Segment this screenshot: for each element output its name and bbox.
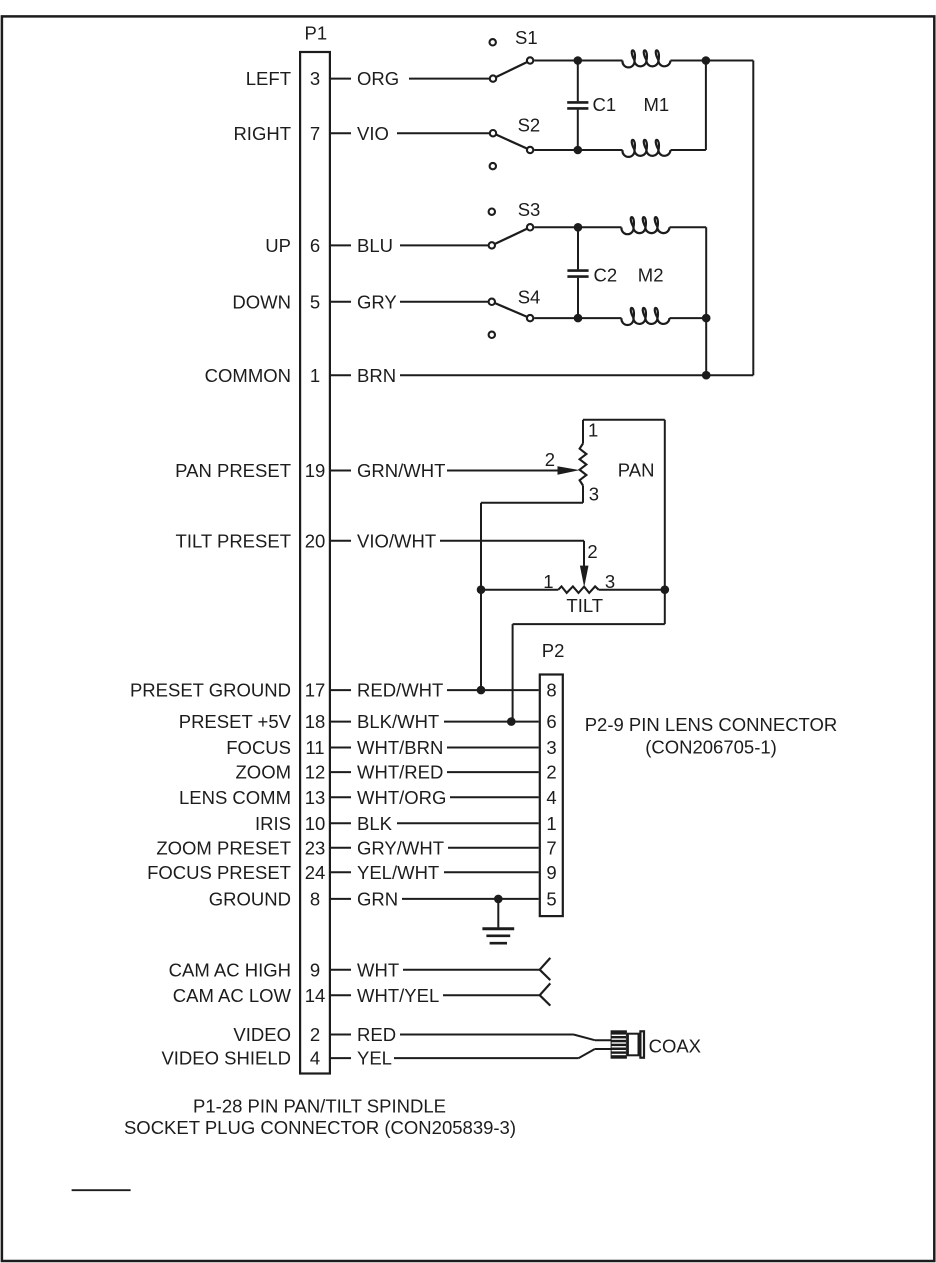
svg-text:WHT: WHT	[357, 959, 399, 980]
inductor M1 top winding	[622, 50, 670, 67]
wire TILT pin3 to +5V net	[513, 590, 665, 722]
pin 4 (VIDEO SHIELD) of P1	[161, 1048, 351, 1069]
svg-text:P2: P2	[542, 640, 565, 661]
pin 13 (LENS COMM) of P1	[179, 787, 351, 808]
capacitor C1	[567, 61, 616, 151]
ground symbol	[482, 899, 514, 943]
node junction C1 bottom	[574, 146, 583, 155]
svg-text:24: 24	[305, 862, 326, 883]
svg-text:2: 2	[587, 541, 597, 562]
node junction TILT pin 1	[477, 585, 486, 594]
svg-text:TILT PRESET: TILT PRESET	[176, 530, 291, 551]
svg-text:13: 13	[305, 787, 326, 808]
svg-text:BLK/WHT: BLK/WHT	[357, 711, 439, 732]
svg-text:WHT/BRN: WHT/BRN	[357, 737, 443, 758]
svg-text:M1: M1	[644, 94, 670, 115]
pin 9 (CAM AC HIGH) of P1	[169, 959, 351, 980]
svg-text:FOCUS: FOCUS	[226, 737, 291, 758]
inductor M2 top winding	[621, 217, 669, 234]
svg-text:PAN PRESET: PAN PRESET	[175, 460, 291, 481]
inductor M2 bottom winding	[621, 308, 669, 325]
svg-text:LEFT: LEFT	[246, 68, 291, 89]
svg-text:BRN: BRN	[357, 365, 396, 386]
svg-text:BLK: BLK	[357, 813, 393, 834]
svg-text:RED: RED	[357, 1024, 396, 1045]
svg-text:3: 3	[589, 484, 599, 505]
svg-text:4: 4	[546, 787, 556, 808]
wire BLU from P1 pin 6	[357, 235, 488, 256]
pin 2 (VIDEO) of P1	[233, 1024, 351, 1045]
svg-text:COMMON: COMMON	[205, 365, 291, 386]
svg-text:ZOOM PRESET: ZOOM PRESET	[156, 837, 291, 858]
svg-text:1: 1	[588, 420, 598, 441]
potentiometer TILT	[481, 541, 665, 616]
wiper arrow PAN (pin 2)	[558, 466, 580, 475]
node junction common at M2	[702, 371, 711, 380]
footnote rule	[72, 1189, 131, 1191]
node junction M1 right	[702, 56, 711, 65]
node junction preset ground at pin 17 row	[477, 686, 486, 695]
svg-text:8: 8	[310, 889, 320, 910]
svg-text:8: 8	[546, 680, 556, 701]
pin 3 (LEFT) of P1	[246, 68, 351, 89]
node junction M2 bottom right	[702, 314, 711, 323]
wire RED/WHT from P1 pin 17	[357, 680, 539, 701]
svg-text:6: 6	[546, 711, 556, 732]
svg-text:19: 19	[305, 460, 326, 481]
pin 7 (RIGHT) of P1	[233, 123, 351, 144]
svg-text:1: 1	[546, 813, 556, 834]
svg-text:3: 3	[310, 68, 320, 89]
svg-text:RIGHT: RIGHT	[233, 123, 291, 144]
svg-text:GRY/WHT: GRY/WHT	[357, 837, 444, 858]
svg-text:14: 14	[305, 985, 326, 1006]
pin 6 (UP) of P1	[265, 235, 351, 256]
svg-text:3: 3	[546, 737, 556, 758]
svg-text:VIO: VIO	[357, 123, 389, 144]
wire M1 right vertical	[705, 61, 707, 151]
svg-text:12: 12	[305, 762, 326, 783]
wiper arrow TILT (pin 2)	[580, 566, 589, 588]
node junction C1 top	[574, 56, 583, 65]
pin 17 (PRESET GROUND) of P1	[130, 680, 351, 701]
svg-text:YEL: YEL	[357, 1048, 392, 1069]
svg-text:GRY: GRY	[357, 291, 397, 312]
svg-text:GROUND: GROUND	[209, 889, 291, 910]
svg-text:TILT: TILT	[566, 595, 603, 616]
switch S4	[489, 287, 541, 338]
svg-text:1: 1	[310, 365, 320, 386]
inductor M1 bottom winding	[622, 140, 670, 157]
wire WHT/YEL from P1 pin 14	[357, 985, 540, 1006]
svg-text:23: 23	[305, 837, 326, 858]
wire GRY/WHT from P1 pin 23	[357, 837, 539, 858]
wire GRN/WHT from P1 pin 19	[357, 460, 558, 481]
wire BLK from P1 pin 10	[357, 813, 539, 834]
pin 23 (ZOOM PRESET) of P1	[156, 837, 351, 858]
svg-text:S2: S2	[518, 115, 541, 136]
svg-text:CAM AC HIGH: CAM AC HIGH	[169, 959, 291, 980]
wire M2 top right	[670, 226, 707, 228]
svg-text:LENS COMM: LENS COMM	[179, 787, 291, 808]
switch S2	[490, 115, 541, 170]
wire VIO/WHT from P1 pin 20	[357, 530, 584, 551]
wire WHT/ORG from P1 pin 13	[357, 787, 539, 808]
node junction TILT pin 3	[661, 585, 670, 594]
pin 11 (FOCUS) of P1	[226, 737, 351, 758]
connector P1	[300, 23, 330, 1074]
svg-text:IRIS: IRIS	[255, 813, 291, 834]
svg-text:VIO/WHT: VIO/WHT	[357, 530, 436, 551]
open wire end (CAM AC HIGH)	[540, 958, 551, 980]
wire VIO/WHT down to TILT wiper	[583, 541, 585, 566]
svg-text:ORG: ORG	[357, 68, 399, 89]
svg-text:CAM AC LOW: CAM AC LOW	[173, 985, 292, 1006]
svg-text:WHT/ORG: WHT/ORG	[357, 787, 446, 808]
pin 19 (PAN PRESET) of P1	[175, 460, 351, 481]
wire WHT from P1 pin 9	[357, 959, 540, 980]
pin 5 (DOWN) of P1	[232, 291, 351, 312]
svg-text:S1: S1	[515, 27, 538, 48]
pin 14 (CAM AC LOW) of P1	[173, 985, 351, 1006]
wire VIO from P1 pin 7	[357, 123, 489, 144]
wire M1 bottom right	[671, 149, 706, 151]
wire BLK/WHT from P1 pin 18	[357, 711, 539, 732]
svg-text:4: 4	[310, 1048, 320, 1069]
wire WHT/BRN from P1 pin 11	[357, 737, 539, 758]
svg-text:5: 5	[546, 889, 556, 910]
node junction C2 top	[574, 223, 583, 232]
svg-text:2: 2	[310, 1024, 320, 1045]
potentiometer PAN	[545, 420, 665, 590]
svg-text:P1-28 PIN PAN/TILT SPINDLE: P1-28 PIN PAN/TILT SPINDLE	[193, 1095, 446, 1116]
pin 18 (PRESET +5V) of P1	[179, 711, 351, 732]
switch S3	[489, 199, 541, 249]
svg-text:7: 7	[310, 123, 320, 144]
svg-text:GRN: GRN	[357, 889, 398, 910]
wire GRY from P1 pin 5	[357, 291, 488, 312]
svg-text:17: 17	[305, 680, 326, 701]
svg-text:WHT/YEL: WHT/YEL	[357, 985, 439, 1006]
svg-text:RED/WHT: RED/WHT	[357, 680, 443, 701]
svg-text:M2: M2	[638, 264, 664, 285]
svg-text:BLU: BLU	[357, 235, 393, 256]
svg-text:C2: C2	[594, 264, 618, 285]
svg-text:3: 3	[605, 571, 615, 592]
node junction +5V at pin 6 row	[507, 717, 516, 726]
svg-text:PRESET GROUND: PRESET GROUND	[130, 680, 291, 701]
switch S1	[490, 27, 538, 82]
wire preset ground vertical	[480, 503, 482, 690]
pin 1 (COMMON) of P1	[205, 365, 351, 386]
wire YEL diagonal into coax	[579, 1049, 595, 1058]
connector P2	[540, 640, 565, 916]
svg-text:2: 2	[546, 762, 556, 783]
wire YEL from P1 pin 4	[357, 1048, 579, 1069]
svg-text:FOCUS PRESET: FOCUS PRESET	[147, 862, 291, 883]
wire ORG from P1 pin 3	[357, 68, 489, 89]
svg-text:ZOOM: ZOOM	[236, 762, 292, 783]
wire YEL/WHT from P1 pin 24	[357, 862, 539, 883]
pin 12 (ZOOM) of P1	[236, 762, 352, 783]
pin 8 (GROUND) of P1	[209, 889, 351, 910]
wire M2 top (S3 throw to coil)	[534, 226, 621, 228]
open wire end (CAM AC LOW)	[540, 983, 551, 1005]
svg-text:PRESET +5V: PRESET +5V	[179, 711, 292, 732]
pin 10 (IRIS) of P1	[255, 813, 351, 834]
wire common return right vertical	[752, 61, 754, 376]
svg-text:2: 2	[545, 449, 555, 470]
wire M2 bottom (S4 throw to coil)	[534, 317, 621, 319]
wire GRN from P1 pin 8	[357, 889, 539, 910]
wire RED from P1 pin 2	[357, 1024, 574, 1045]
svg-text:6: 6	[310, 235, 320, 256]
svg-text:1: 1	[543, 571, 553, 592]
svg-text:9: 9	[546, 862, 556, 883]
svg-text:DOWN: DOWN	[232, 291, 291, 312]
svg-text:C1: C1	[593, 94, 617, 115]
svg-text:VIDEO SHIELD: VIDEO SHIELD	[161, 1048, 291, 1069]
svg-text:9: 9	[310, 959, 320, 980]
capacitor C2	[567, 227, 617, 318]
svg-text:WHT/RED: WHT/RED	[357, 762, 443, 783]
svg-text:10: 10	[305, 813, 326, 834]
svg-text:5: 5	[310, 291, 320, 312]
node junction GRN at ground	[494, 895, 503, 904]
wire M1 top (S1 throw to coil)	[534, 60, 622, 62]
svg-text:UP: UP	[265, 235, 291, 256]
svg-text:S3: S3	[518, 199, 541, 220]
svg-text:SOCKET PLUG CONNECTOR (CON2058: SOCKET PLUG CONNECTOR (CON205839-3)	[124, 1117, 516, 1138]
svg-text:YEL/WHT: YEL/WHT	[357, 862, 439, 883]
wire RED diagonal into coax	[574, 1035, 595, 1041]
pin 24 (FOCUS PRESET) of P1	[147, 862, 351, 883]
wire M2 bottom right	[670, 317, 707, 319]
node junction C2 bottom	[574, 314, 583, 323]
svg-text:GRN/WHT: GRN/WHT	[357, 460, 445, 481]
wire M1 bottom (S2 throw to coil)	[534, 149, 622, 151]
svg-text:11: 11	[305, 737, 324, 758]
wire WHT/RED from P1 pin 12	[357, 762, 539, 783]
svg-text:(CON206705-1): (CON206705-1)	[645, 737, 777, 758]
svg-text:VIDEO: VIDEO	[233, 1024, 291, 1045]
svg-text:P2-9 PIN LENS CONNECTOR: P2-9 PIN LENS CONNECTOR	[585, 714, 838, 735]
svg-text:S4: S4	[518, 287, 541, 308]
wire M1 top right	[671, 60, 754, 62]
svg-text:COAX: COAX	[649, 1035, 701, 1056]
wire M2 right vertical	[705, 227, 707, 375]
svg-text:18: 18	[305, 711, 326, 732]
wire PAN bottom to left vertical	[481, 502, 583, 504]
svg-text:PAN: PAN	[618, 460, 655, 481]
svg-text:7: 7	[546, 837, 556, 858]
wire BRN from P1 pin 1	[357, 365, 753, 386]
svg-text:P1: P1	[305, 23, 328, 44]
svg-text:20: 20	[305, 530, 326, 551]
pin 20 (TILT PRESET) of P1	[176, 530, 351, 551]
BNC coax connector	[595, 1030, 644, 1058]
